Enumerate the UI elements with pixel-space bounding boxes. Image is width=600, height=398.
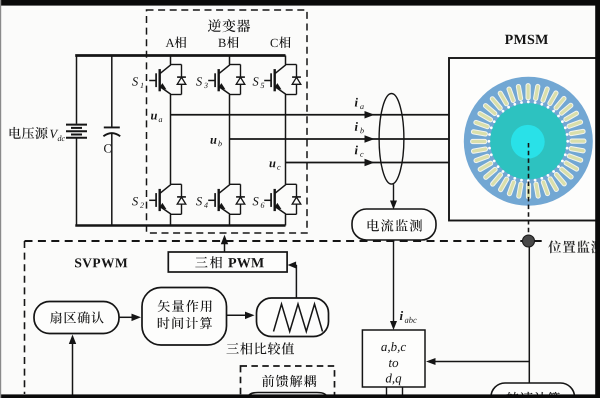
wire+arrow: comparator to PWM box bbox=[288, 262, 297, 298]
wire: speed feedback to abc-dq block bbox=[432, 361, 529, 363]
motor rotor (teal) bbox=[490, 103, 566, 179]
SVPWM enclosure left dashed edge bbox=[24, 241, 26, 394]
label: i_c bbox=[355, 146, 364, 157]
label: S6 bbox=[253, 197, 265, 208]
wire: capacitor branch upper bbox=[111, 56, 113, 128]
arrowhead on phase b current line bbox=[365, 135, 375, 143]
arrowhead on phase c current line bbox=[365, 159, 375, 166]
label: u_b bbox=[211, 138, 222, 146]
wire+arrow: sector confirm to vector time calc bbox=[119, 314, 141, 322]
enclosure: 前馈解耦 (feedforward decoupling) dashed box bbox=[241, 366, 335, 398]
wire: sensor to current-monitor block bbox=[393, 184, 395, 202]
wire+arrow: into sector confirm from below bbox=[69, 335, 76, 398]
label: S3 bbox=[196, 77, 208, 88]
capacitor C bbox=[103, 127, 120, 136]
transistor S4 (IGBT) with freewheel diode bbox=[208, 184, 245, 214]
wire: phase A leg bbox=[170, 56, 172, 226]
wire: phase output u_c to motor bbox=[286, 162, 450, 164]
motor shaft magnet (cyan) bbox=[511, 125, 545, 159]
wire: phase B leg bbox=[229, 56, 231, 226]
label: C相 (phase C) bbox=[271, 37, 291, 49]
block: 矢量作用时间计算 (vector action time calculation) bbox=[142, 288, 227, 346]
shaft sensing dashed line bbox=[528, 143, 530, 235]
block: 三相PWM (three-phase PWM) bbox=[168, 252, 287, 272]
label: 逆变器 (inverter) bbox=[208, 19, 250, 32]
arrowhead into abc-dq block right side bbox=[426, 358, 436, 365]
label: i_abc bbox=[400, 311, 417, 323]
label: C (capacitor value) bbox=[104, 144, 111, 152]
transistor S6 (IGBT) with freewheel diode bbox=[264, 184, 301, 214]
transistor S1 (IGBT) with freewheel diode bbox=[149, 65, 186, 95]
inverter enclosure (dashed box) bbox=[147, 10, 308, 233]
label: 位置监测 (position monitoring) bbox=[548, 241, 600, 254]
wire: battery branch upper bbox=[76, 56, 78, 124]
block: abc to dq transform bbox=[362, 330, 425, 387]
label: S4 bbox=[196, 197, 208, 208]
battery Vdc (DC voltage source) bbox=[66, 125, 87, 138]
arrowhead into current monitor bbox=[390, 201, 397, 210]
feedback dashed line (sensors bus) bbox=[25, 240, 545, 242]
label: A相 (phase A) bbox=[166, 37, 187, 49]
label: S5 bbox=[253, 77, 265, 88]
block: 电流监测 (current monitoring) bbox=[352, 209, 436, 240]
label: u_a bbox=[151, 114, 162, 122]
wire+arrow: vector calc to comparator bbox=[227, 312, 255, 320]
transistor S3 (IGBT) with freewheel diode bbox=[208, 65, 245, 95]
wire+arrow: PWM to inverter bbox=[221, 235, 228, 252]
motor stator slots/windings bbox=[471, 84, 586, 199]
wire: DC bus negative bottom rail bbox=[75, 224, 285, 226]
label: 电压源 Vdc bbox=[10, 127, 65, 141]
arrowhead on phase a current line bbox=[365, 111, 375, 119]
transistor S5 (IGBT) with freewheel diode bbox=[264, 65, 301, 95]
label: i_a bbox=[355, 98, 364, 109]
block: 转速计算 (speed calculation, clipped at bottom) bbox=[491, 383, 575, 398]
transistor S2 (IGBT) with freewheel diode bbox=[149, 184, 186, 214]
slot tip markers (white dots) bbox=[488, 101, 570, 183]
block: 扇区确认 (sector confirmation) bbox=[34, 302, 119, 334]
wire: position sensor down to speed calc bbox=[528, 247, 530, 385]
wire: current monitor down to abc-dq block bbox=[393, 240, 395, 324]
block: rounded box inside decoupling (clipped) bbox=[248, 393, 327, 398]
arrowhead into abc-dq block bbox=[390, 321, 397, 330]
PMSM motor housing box bbox=[449, 58, 600, 221]
label: 三相比较值 (three-phase comparison values) bbox=[227, 342, 295, 354]
label: B相 (phase B) bbox=[218, 37, 238, 49]
wire: phase C leg bbox=[285, 56, 287, 226]
label: PMSM bbox=[505, 35, 548, 44]
label: S1 bbox=[132, 77, 143, 88]
wire: phase output u_a to motor bbox=[171, 114, 450, 116]
label: u_c bbox=[270, 162, 281, 170]
wire: DC bus positive top rail bbox=[75, 54, 285, 57]
label: SVPWM bbox=[75, 258, 127, 267]
motor stator outer ring bbox=[464, 77, 593, 206]
wire: capacitor branch lower bbox=[111, 134, 113, 226]
label: S2 bbox=[132, 197, 144, 208]
current sensor (ellipse around three-phase lines) bbox=[379, 94, 404, 185]
position sensor (gray circle on shaft) bbox=[523, 235, 535, 247]
wire: phase output u_b to motor bbox=[230, 138, 450, 140]
label: i_b bbox=[355, 122, 364, 133]
block: triangle-wave comparator bbox=[257, 298, 329, 337]
triangle carrier waveform bbox=[274, 304, 323, 332]
wire: dq outputs down bbox=[387, 387, 403, 398]
wire: battery branch lower bbox=[76, 139, 78, 226]
video frame black bars bbox=[0, 0, 600, 6]
